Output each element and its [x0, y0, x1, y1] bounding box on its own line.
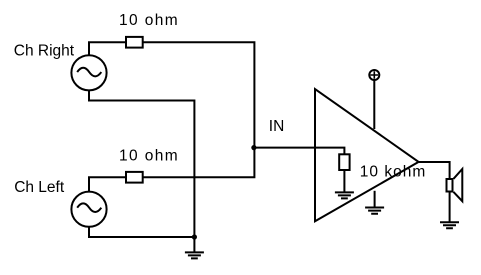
svg-text:Ch Left: Ch Left	[14, 179, 65, 196]
svg-text:IN: IN	[269, 118, 285, 135]
svg-text:10 kohm: 10 kohm	[360, 163, 426, 180]
svg-text:10 ohm: 10 ohm	[119, 147, 179, 164]
svg-text:10 ohm: 10 ohm	[119, 12, 179, 29]
svg-text:Ch Right: Ch Right	[14, 43, 75, 60]
